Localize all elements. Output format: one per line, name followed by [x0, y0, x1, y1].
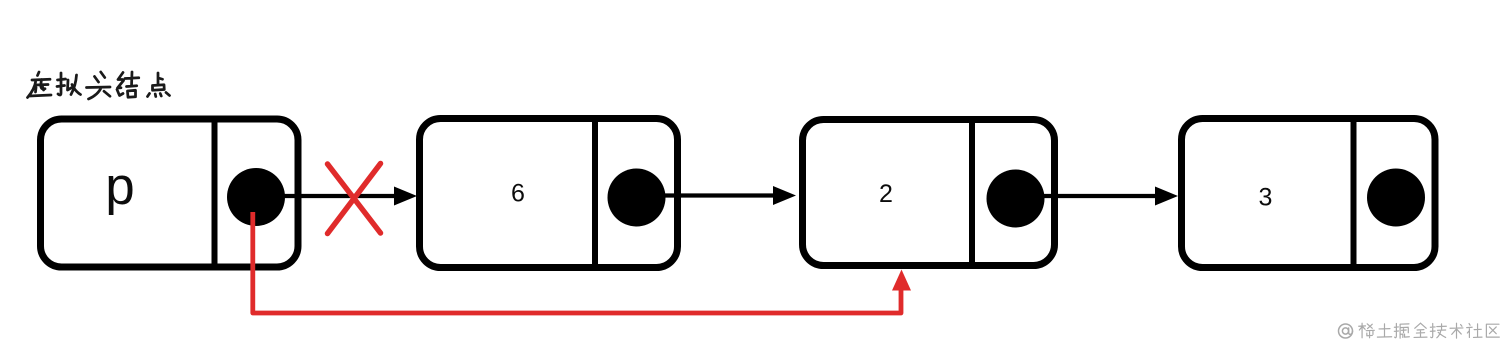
char 头	[87, 72, 111, 99]
char 区	[1486, 324, 1499, 337]
node 2 divider	[969, 120, 975, 266]
char 社	[1467, 324, 1482, 338]
node P: dummy head box	[41, 119, 299, 267]
red bypass arrow p -> node 2	[253, 212, 901, 313]
node 6 divider	[592, 119, 598, 268]
@ sign	[1339, 324, 1353, 338]
char 技	[1430, 324, 1446, 338]
arrow 2 -> 3	[1015, 187, 1178, 206]
char 虚	[28, 72, 52, 98]
svg-text:3: 3	[1259, 184, 1273, 212]
arrow 6 -> 2	[636, 186, 796, 205]
char 结	[117, 72, 139, 97]
node P pointer dot	[227, 168, 285, 226]
red bypass arrowhead	[892, 270, 911, 291]
char 土	[1377, 324, 1391, 337]
red X delete mark	[328, 164, 381, 234]
char 稀	[1359, 323, 1375, 338]
node 2 box	[803, 120, 1055, 266]
char 掘	[1394, 324, 1409, 339]
svg-text:p: p	[105, 157, 134, 216]
title 虚拟头结点 (virtual head node label)	[28, 72, 170, 99]
char 点	[148, 73, 170, 97]
node 6 box	[420, 119, 678, 268]
node P divider	[212, 119, 218, 267]
node 3 divider	[1351, 119, 1357, 268]
arrow p -> 6 (crossed out)	[256, 187, 417, 206]
watermark @稀土掘金技术社区	[1339, 323, 1500, 338]
node 6 pointer dot	[608, 169, 666, 227]
char 金	[1414, 323, 1427, 337]
node 3 pointer dot	[1367, 169, 1425, 227]
char 拟	[57, 73, 81, 95]
svg-text:6: 6	[511, 180, 525, 208]
svg-text:2: 2	[879, 180, 893, 208]
node 2 pointer dot	[987, 170, 1045, 228]
char 术	[1450, 323, 1463, 338]
node 3 box	[1182, 119, 1436, 268]
